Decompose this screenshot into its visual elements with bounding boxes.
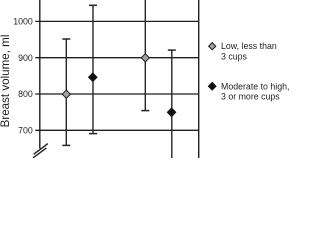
svg-text:Low, less than: Low, less than	[221, 41, 277, 51]
marker black diamond 4	[167, 108, 175, 116]
axis break slash upper	[34, 144, 48, 155]
legend black diamond	[208, 82, 216, 90]
error bar 1 bottom cap	[62, 144, 70, 146]
error bar 4 top cap	[168, 49, 176, 51]
marker black diamond 2	[89, 73, 97, 81]
gridline 900	[35, 57, 198, 59]
error bar 1 top cap	[62, 38, 70, 40]
svg-text:3 or more cups: 3 or more cups	[221, 92, 280, 102]
y-axis line	[39, 0, 41, 149]
svg-text:800: 800	[18, 89, 33, 99]
svg-text:Moderate to high,: Moderate to high,	[221, 81, 289, 91]
gridline 800	[35, 93, 198, 95]
error bar 4 vertical	[171, 50, 173, 158]
svg-text:3 cups: 3 cups	[221, 52, 248, 62]
error bar 2 bottom cap	[89, 133, 97, 135]
error bar 2 vertical	[92, 5, 94, 133]
axis break slash lower	[33, 148, 46, 158]
marker gray diamond 3	[141, 54, 149, 62]
svg-text:Breast volume, ml: Breast volume, ml	[0, 35, 12, 128]
gridline 700	[35, 129, 198, 131]
svg-text:1000: 1000	[13, 17, 33, 27]
error bar 2 top cap	[89, 4, 97, 6]
legend gray diamond	[209, 43, 216, 50]
y-axis title "Breast volume, ml"	[0, 35, 12, 128]
error bar 3 bottom cap	[141, 110, 149, 112]
svg-text:700: 700	[18, 126, 33, 136]
marker gray diamond 1	[62, 90, 70, 98]
svg-text:900: 900	[18, 53, 33, 63]
error bar 1 vertical	[65, 39, 67, 145]
plot right border	[198, 0, 200, 158]
error bar 3 vertical	[144, 0, 146, 111]
gridline 1000	[35, 20, 198, 22]
